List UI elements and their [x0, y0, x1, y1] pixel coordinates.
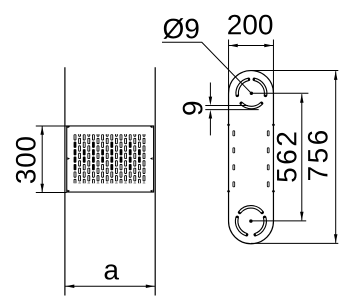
dim 300 extension line bottom [36, 192, 67, 194]
corner mark BR [150, 190, 153, 193]
dim 9 arrow upper [209, 83, 211, 101]
capsule (oval duct outline) [229, 71, 274, 244]
top knockout center hole [250, 92, 253, 95]
edge mark MR [150, 157, 153, 160]
slot perforation pattern [74, 130, 146, 188]
edge mark ML [67, 157, 70, 160]
top knockout arc upper-right [254, 79, 265, 95]
top knockout arc upper-left [237, 79, 248, 95]
dim text 9 [183, 102, 203, 115]
dim 200 dimension line [229, 45, 273, 47]
dim 9 extension line lower [205, 109, 258, 111]
bottom knockout arc top [240, 207, 262, 212]
perforated plate rectangle [67, 126, 154, 192]
dim text 562 [277, 133, 297, 182]
dim text 300 [16, 137, 36, 183]
dim 300 extension line top [36, 125, 67, 127]
dim 9 extension line upper [205, 105, 248, 107]
top knockout arc bottom [241, 103, 261, 107]
dim 756 extension line top (from capsule top) [251, 70, 338, 72]
corner mark BL [67, 190, 70, 193]
left view: duct side line left [64, 67, 66, 295]
leader line for Ø9 [162, 42, 251, 93]
corner mark TR [150, 126, 153, 129]
dim 562 extension line top (from top knockout centre) [251, 92, 308, 94]
dim 200 extension line left [228, 40, 230, 94]
dim 300 dimension line [41, 126, 43, 192]
capsule side slots [233, 130, 236, 136]
capsule tick bottom-right [272, 189, 275, 193]
dim text a [105, 264, 119, 279]
dim 756 extension line bottom (from capsule bottom) [251, 242, 338, 244]
left view: duct side line right [154, 67, 156, 295]
dim a dimension line [65, 285, 154, 287]
dim 756 dimension line [335, 71, 337, 243]
dim 9 arrow lower [209, 115, 211, 135]
capsule tick top-right [272, 123, 275, 127]
capsule tick top-left [227, 123, 230, 127]
bottom knockout arc lower-right [255, 217, 265, 234]
bottom knockout arc lower-left [237, 217, 247, 234]
bottom knockout center hole [249, 219, 252, 222]
dim 200 extension line right [272, 40, 274, 94]
dim text Ø9 [163, 18, 198, 39]
dim 562 extension line bottom (from bottom knockout centre) [251, 220, 306, 222]
dim text 756 [308, 131, 328, 180]
corner mark TL [67, 126, 70, 129]
dim text 200 [228, 15, 272, 35]
dim 562 dimension line [301, 94, 303, 220]
capsule tick bottom-left [227, 189, 230, 193]
